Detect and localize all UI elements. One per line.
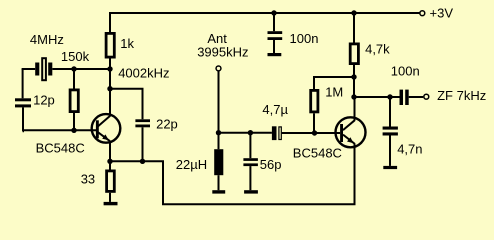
svg-text:56p: 56p <box>260 157 282 172</box>
resistor R1 1k <box>106 33 134 57</box>
resistor R2 150k <box>61 49 90 130</box>
resistor R4 4,7k <box>350 13 390 77</box>
node junction output <box>351 94 356 99</box>
terminal Ant <box>197 31 248 71</box>
capacitor C1 12p <box>15 92 55 107</box>
node junction emitter Q1 <box>107 159 112 164</box>
transistor Q1 BC548C <box>36 89 121 162</box>
svg-text:+3V: +3V <box>430 5 454 20</box>
svg-text:22p: 22p <box>156 117 178 132</box>
wire emitter tap <box>110 148 355 205</box>
wire to 1M <box>314 77 354 89</box>
wire collector to 22p <box>110 89 143 120</box>
crystal X1 4MHz <box>22 32 64 80</box>
node junction 4,7n <box>387 94 392 99</box>
svg-text:4,7k: 4,7k <box>365 42 390 57</box>
svg-text:4002kHz: 4002kHz <box>118 65 169 80</box>
wire top supply rail <box>110 13 420 32</box>
capacitor C3 100n <box>268 13 319 54</box>
svg-text:4MHz: 4MHz <box>30 32 64 47</box>
wire input row <box>219 132 272 134</box>
wire base Q2 <box>282 132 340 134</box>
node junction 4,7k bottom <box>351 74 356 79</box>
svg-text:22µH: 22µH <box>176 157 207 172</box>
resistor R3 33 <box>81 161 115 202</box>
node junction 22p bottom <box>140 159 145 164</box>
node junction 1M bottom <box>312 130 317 135</box>
svg-text:BC548C: BC548C <box>293 145 342 160</box>
wire crystal row <box>52 68 110 70</box>
node junction 4,7k top rail <box>351 10 356 15</box>
svg-text:33: 33 <box>81 172 95 187</box>
node junction collector <box>107 86 112 91</box>
wire output row <box>354 96 400 98</box>
wire antenna lead <box>218 71 220 132</box>
svg-text:4,7n: 4,7n <box>397 142 422 157</box>
svg-text:100n: 100n <box>290 31 319 46</box>
terminal +3V <box>420 5 453 20</box>
svg-text:3995kHz: 3995kHz <box>197 45 248 60</box>
node junction 56p <box>248 130 253 135</box>
svg-text:ZF 7kHz: ZF 7kHz <box>437 88 486 103</box>
resistor R5 1M <box>311 85 344 133</box>
capacitor C5 4,7µ electrolytic <box>262 102 288 140</box>
svg-text:4,7µ: 4,7µ <box>262 102 288 117</box>
capacitor C6 100n output <box>391 64 424 106</box>
ground bar C3 <box>268 53 282 56</box>
node junction 100n top rail <box>271 10 276 15</box>
node junction 150k/crystal <box>71 66 76 71</box>
terminal ZF 7kHz <box>424 88 486 103</box>
capacitor C4 56p <box>243 133 281 191</box>
svg-text:12p: 12p <box>33 92 55 107</box>
ground bar L1 <box>212 190 225 193</box>
transistor Q2 BC548C <box>293 97 366 160</box>
svg-text:100n: 100n <box>391 64 420 79</box>
wire base rail <box>23 129 97 131</box>
svg-text:BC548C: BC548C <box>36 141 85 156</box>
ground bar C4 <box>244 190 258 193</box>
svg-text:1k: 1k <box>120 36 134 51</box>
svg-text:1M: 1M <box>325 85 343 100</box>
wire 1k bottom to node <box>109 59 111 70</box>
ground bar C7 <box>383 166 397 169</box>
node junction antenna <box>216 130 221 135</box>
inductor L1 22µH <box>176 133 224 191</box>
wire collector node <box>109 69 111 89</box>
node junction 1k bottom <box>107 66 112 71</box>
node junction 150k bottom <box>71 128 76 133</box>
capacitor C7 4,7n <box>383 97 423 166</box>
wire left branch down to 12p <box>22 69 24 98</box>
wire 12p to base rail <box>22 107 24 131</box>
svg-text:150k: 150k <box>61 49 90 64</box>
ground bar R3 <box>104 202 118 205</box>
wire 4,7k bottom to output node <box>353 77 355 97</box>
capacitor C2 22p <box>135 117 177 162</box>
